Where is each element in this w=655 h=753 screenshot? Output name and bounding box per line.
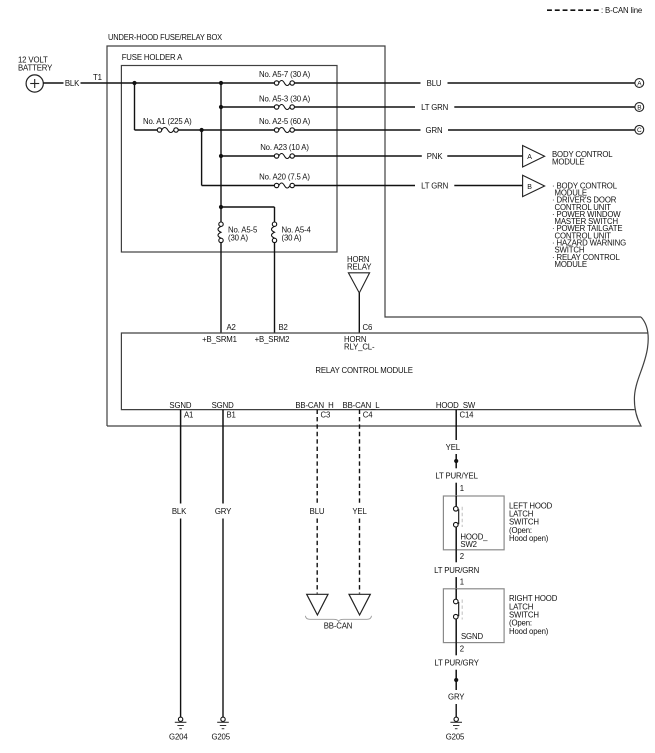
wire LT PUR/GRY to GRY [455, 670, 457, 690]
svg-text:LT PUR/YEL: LT PUR/YEL [435, 472, 478, 481]
svg-text:No. A20 (7.5 A): No. A20 (7.5 A) [259, 172, 310, 181]
svg-text:C6: C6 [363, 323, 373, 332]
module label HORN RLY_CL- [344, 335, 375, 352]
wire right switch pin 2 [455, 643, 457, 656]
module label +B_SRM2 [255, 335, 290, 344]
svg-text:SGND: SGND [461, 632, 483, 641]
svg-text:1: 1 [460, 578, 464, 587]
connector circle B [635, 103, 644, 112]
wire C4 dashed lower [359, 519, 361, 594]
fuse No. A5-3 (30 A) [259, 94, 311, 109]
wire LT PUR/GRN to right hood switch pin 1 [455, 577, 457, 589]
svg-text:No. A1 (225 A): No. A1 (225 A) [143, 117, 192, 126]
svg-text:Hood open): Hood open) [509, 534, 549, 543]
right hood latch switch box [443, 589, 504, 643]
wire label GRN [426, 126, 443, 135]
battery label 12 VOLT BATTERY [18, 56, 53, 73]
svg-text:C: C [637, 127, 642, 134]
svg-text:Hood open): Hood open) [509, 627, 549, 636]
svg-text:SW2: SW2 [460, 540, 476, 549]
svg-text:(30 A): (30 A) [228, 234, 248, 243]
svg-text:BB-CAN_H: BB-CAN_H [295, 401, 333, 410]
wire fuse A2-5 to GRN label [294, 129, 420, 131]
svg-text:SGND: SGND [212, 401, 234, 410]
label RELAY CONTROL MODULE [315, 366, 412, 375]
module label +B_SRM1 [202, 335, 237, 344]
wire label LT GRN [421, 103, 448, 112]
legend: B-CAN line dashed sample [547, 9, 600, 11]
node junction row4 [219, 154, 223, 158]
connector circle A [635, 79, 644, 88]
svg-text:LT PUR/GRY: LT PUR/GRY [434, 659, 479, 668]
wire GRN to connector C [448, 129, 635, 131]
horn relay connector triangle [348, 273, 369, 293]
module label BB-CAN_H [295, 401, 333, 410]
svg-text:HOOD_SW: HOOD_SW [436, 401, 476, 410]
wire label BLK [65, 79, 80, 88]
wire drop from A1 output to fuse A20 [202, 130, 275, 186]
svg-text:BB-CAN_L: BB-CAN_L [343, 401, 381, 410]
wire bus to fuse A5-3 [221, 106, 274, 108]
svg-text:B: B [637, 104, 641, 111]
pin C3 [321, 411, 331, 420]
node junction ground splice [454, 678, 458, 682]
wire + ground G204 [169, 519, 188, 742]
pin B1 [227, 411, 236, 420]
node junction A1 output [200, 128, 204, 132]
wire label GRY [448, 693, 465, 702]
label SGND (right hood switch) [461, 632, 483, 641]
wire PNK to connector triangle A [447, 155, 522, 157]
svg-text:LT PUR/GRN: LT PUR/GRN [434, 566, 479, 575]
wire label LT GRN [421, 181, 448, 190]
wire fuse A5-3 to LT GRN label [294, 106, 415, 108]
svg-text:G205: G205 [446, 733, 465, 742]
svg-text:2: 2 [460, 552, 464, 561]
wire BLU to connector A [448, 82, 635, 84]
svg-text:BLU: BLU [427, 79, 442, 88]
wire C3 dashed lower [316, 519, 318, 594]
wire vertical bus from row1 down to fuse A5-5 [220, 83, 222, 222]
svg-text:No. A5-3 (30 A): No. A5-3 (30 A) [259, 94, 311, 103]
wire + ground G205 (hood switches) [446, 704, 465, 742]
fuse No. A20 (7.5 A) [259, 172, 310, 188]
fuse No. A5-4 (30 A) [272, 222, 312, 243]
node junction bus top [219, 81, 223, 85]
pin 2 (left hood switch) [460, 552, 464, 561]
svg-text:GRY: GRY [448, 693, 465, 702]
battery symbol [26, 75, 43, 92]
svg-text:UNDER-HOOD FUSE/RELAY BOX: UNDER-HOOD FUSE/RELAY BOX [108, 33, 223, 42]
node junction hood switch feed [454, 459, 458, 463]
connector circle C [635, 125, 644, 134]
wire fuse A1 to fuse A2-5 [178, 129, 274, 131]
svg-text:B2: B2 [279, 323, 288, 332]
module label HOOD_SW [436, 401, 476, 410]
pin A2 [227, 323, 236, 332]
svg-text:1: 1 [460, 484, 464, 493]
wire YEL to LT PUR/YEL [455, 454, 457, 468]
label RIGHT HOOD LATCH SWITCH [509, 594, 558, 636]
wire bus to fuse A23 [221, 155, 274, 157]
fuse No. A5-7 (30 A) [259, 70, 311, 86]
connector triangle B [523, 175, 545, 196]
legend label : B-CAN line [601, 6, 642, 15]
label LEFT HOOD LATCH SWITCH [509, 501, 553, 543]
svg-text:MODULE: MODULE [552, 158, 584, 167]
connector triangle A [523, 146, 545, 168]
svg-text:RELAY: RELAY [347, 263, 372, 272]
svg-text:LT GRN: LT GRN [421, 103, 448, 112]
wire label YEL [352, 507, 367, 516]
wire A1 (BLK) upper [180, 410, 182, 504]
svg-text:RLY_CL-: RLY_CL- [344, 343, 375, 352]
node junction battery feed [132, 81, 136, 85]
wire C14 (YEL) [455, 410, 457, 440]
svg-text:BB-CAN: BB-CAN [324, 621, 353, 630]
svg-text:A: A [527, 154, 532, 161]
pin 1 (right hood switch) [460, 578, 464, 587]
label FUSE HOLDER A [122, 53, 183, 62]
node junction A5-5 branch [219, 205, 223, 209]
module label BB-CAN_L [343, 401, 381, 410]
svg-text:+B_SRM2: +B_SRM2 [255, 335, 290, 344]
svg-text:(30 A): (30 A) [282, 234, 302, 243]
svg-text:: B-CAN line: : B-CAN line [601, 6, 642, 15]
wire battery to T1 (BLK) [43, 82, 63, 84]
pin 2 (right hood switch) [460, 645, 464, 654]
arrow terminal BB-CAN_L [349, 594, 370, 615]
svg-text:BLU: BLU [310, 507, 325, 516]
pin B2 [279, 323, 288, 332]
arrow terminal BB-CAN_H [307, 594, 328, 615]
pin C4 [363, 411, 373, 420]
svg-text:C3: C3 [321, 411, 331, 420]
svg-text:GRN: GRN [426, 126, 443, 135]
wire LT GRN to connector B [454, 106, 635, 108]
switch right hood contacts [454, 589, 463, 643]
wire C4 BB-CAN_L dashed (YEL) upper [359, 410, 361, 504]
wire A5-4 to module pin B2 [274, 243, 276, 333]
svg-text:GRY: GRY [215, 507, 232, 516]
label BB-CAN [324, 621, 353, 630]
svg-text:T1: T1 [93, 73, 102, 82]
wire horn relay to module pin C6 [358, 293, 360, 333]
wire label LT PUR/GRY [434, 659, 479, 668]
label BODY CONTROL MODULE (A) [552, 150, 613, 167]
wire label LT PUR/GRN [434, 566, 479, 575]
wire branch to A5-4 [221, 207, 275, 222]
svg-text:BATTERY: BATTERY [18, 63, 53, 72]
wire fuse A5-7 to BLU label [294, 82, 420, 84]
pin A1 [184, 411, 193, 420]
svg-text:No. A5-7 (30 A): No. A5-7 (30 A) [259, 70, 311, 79]
label HOOD_SW2 [460, 533, 488, 549]
relay control module box [121, 333, 648, 410]
svg-text:SGND: SGND [169, 401, 191, 410]
svg-text:No. A23 (10 A): No. A23 (10 A) [260, 143, 309, 152]
switch HOOD_SW2 contacts [454, 496, 463, 550]
brace under BB-CAN arrows [305, 616, 371, 622]
svg-text:LT GRN: LT GRN [421, 181, 448, 190]
wire + ground G205 [211, 519, 230, 742]
wire T1 into box to fuse A5-7 [81, 82, 275, 84]
pin C6 [363, 323, 373, 332]
svg-text:C4: C4 [363, 411, 373, 420]
label list for triangle B [552, 181, 626, 269]
wire drop from battery junction to fuse A1 [135, 83, 158, 130]
wire C3 BB-CAN_H dashed (BLU) upper [316, 410, 318, 504]
svg-text:G205: G205 [211, 733, 230, 742]
svg-text:YEL: YEL [446, 443, 461, 452]
wire A5-5 to module pin A2 [220, 243, 222, 333]
svg-text:G204: G204 [169, 733, 188, 742]
wire fuse A20 to LT GRN label [294, 185, 415, 187]
wire label BLU [310, 507, 325, 516]
wire label PNK [427, 152, 444, 161]
svg-text:No. A2-5 (60 A): No. A2-5 (60 A) [259, 117, 311, 126]
pin 1 (left hood switch) [460, 484, 464, 493]
svg-text:MODULE: MODULE [555, 260, 587, 269]
wire label LT PUR/YEL [435, 472, 478, 481]
wire LT PUR/YEL to left hood switch pin 1 [455, 483, 457, 496]
label HORN RELAY [347, 255, 372, 271]
pin C14 [460, 411, 475, 420]
under-hood fuse/relay box outline [107, 46, 648, 426]
wire fuse A23 to PNK label [294, 155, 421, 157]
svg-text:YEL: YEL [352, 507, 367, 516]
fuse holder A box [121, 66, 337, 253]
module label SGND (A1) [169, 401, 191, 410]
svg-text:FUSE HOLDER A: FUSE HOLDER A [122, 53, 183, 62]
fuse No. A5-5 (30 A) [218, 222, 258, 243]
wire left switch pin 2 [455, 550, 457, 563]
wire label BLK [172, 507, 187, 516]
svg-text:RELAY CONTROL MODULE: RELAY CONTROL MODULE [315, 366, 412, 375]
svg-text:PNK: PNK [427, 152, 444, 161]
svg-text:A1: A1 [184, 411, 193, 420]
fuse No. A1 (225 A) [143, 117, 192, 133]
svg-text:BLK: BLK [65, 79, 80, 88]
svg-text:A2: A2 [227, 323, 236, 332]
wire label YEL [446, 443, 461, 452]
svg-text:B: B [527, 184, 532, 191]
wire LT GRN to connector triangle B [454, 185, 522, 187]
wire B1 (GRY) upper [222, 410, 224, 504]
label UNDER-HOOD FUSE/RELAY BOX [108, 33, 223, 42]
fuse No. A2-5 (60 A) [259, 117, 311, 133]
label T1 [93, 73, 102, 82]
svg-text:B1: B1 [227, 411, 236, 420]
wire label BLU [427, 79, 442, 88]
svg-text:BLK: BLK [172, 507, 187, 516]
svg-text:2: 2 [460, 645, 464, 654]
fuse No. A23 (10 A) [260, 143, 309, 159]
left hood latch switch box HOOD_SW2 [443, 496, 504, 550]
svg-text:C14: C14 [460, 411, 475, 420]
node junction row2 [219, 105, 223, 109]
wire label GRY [215, 507, 232, 516]
module label SGND (B1) [212, 401, 234, 410]
svg-text:+B_SRM1: +B_SRM1 [202, 335, 237, 344]
